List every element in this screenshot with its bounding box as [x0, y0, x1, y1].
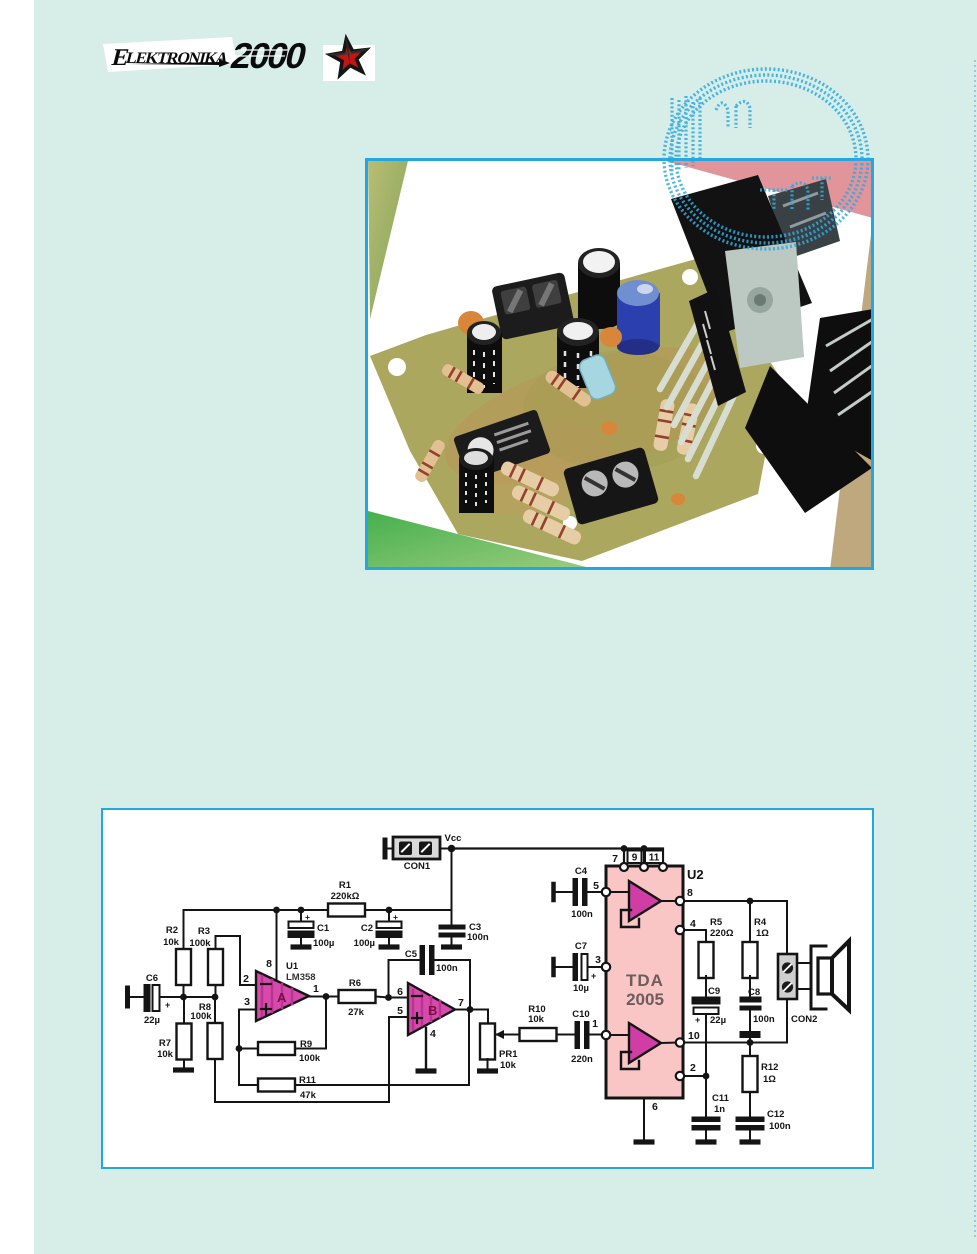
resistor R2 10k	[183, 910, 185, 997]
wire U1A pin3	[239, 1009, 256, 1011]
capacitor C8 100n	[740, 997, 762, 1003]
svg-text:2: 2	[690, 1062, 696, 1074]
svg-text:100n: 100n	[467, 932, 489, 943]
wire pin8 output rail	[684, 901, 787, 954]
svg-text:220Ω: 220Ω	[710, 928, 734, 939]
wire C6 to input node	[160, 996, 216, 998]
wire U1B pin6 node	[389, 997, 409, 999]
svg-text:U1: U1	[286, 961, 299, 972]
svg-text:10k: 10k	[528, 1014, 545, 1025]
potentiometer PR1 10k	[480, 1024, 495, 1060]
resistor R8 100k	[214, 997, 216, 1023]
pin circles top	[620, 863, 628, 871]
svg-text:R9: R9	[300, 1039, 312, 1050]
svg-text:100k: 100k	[190, 1011, 212, 1022]
input terminal	[125, 988, 130, 1006]
resistor R12 1ohm	[749, 1043, 751, 1057]
svg-text:100n: 100n	[436, 963, 458, 974]
op-amp U1A	[256, 971, 309, 1021]
svg-text:Vcc: Vcc	[445, 833, 462, 844]
supply bias rail	[184, 909, 452, 911]
svg-text:R11: R11	[299, 1075, 317, 1086]
capacitor C11 1n	[705, 1076, 707, 1117]
IC U2 TDA2005 body	[606, 866, 683, 1098]
node input bias junctions	[180, 994, 187, 1001]
speaker	[797, 962, 811, 964]
U2 upper amp	[610, 891, 629, 893]
svg-text:10µ: 10µ	[573, 983, 589, 994]
svg-text:8: 8	[266, 958, 272, 970]
wire Vcc down to C3	[451, 849, 453, 926]
svg-text:PR1: PR1	[499, 1049, 518, 1060]
resistor R3 100k	[215, 985, 217, 997]
U1B pin4 ground	[425, 1028, 427, 1068]
svg-text:+: +	[591, 971, 596, 981]
svg-text:C1: C1	[317, 923, 330, 934]
svg-text:10: 10	[688, 1030, 700, 1042]
svg-text:220kΩ: 220kΩ	[331, 891, 360, 902]
svg-text:4: 4	[690, 918, 696, 930]
svg-text:100n: 100n	[769, 1121, 791, 1132]
svg-text:U2: U2	[687, 867, 704, 882]
svg-text:22µ: 22µ	[144, 1015, 160, 1026]
svg-text:2005: 2005	[626, 990, 664, 1009]
pin 3	[602, 963, 610, 971]
capacitor C4 100n	[551, 884, 556, 900]
svg-text:LM358: LM358	[286, 972, 316, 983]
ground below R7	[173, 1067, 194, 1072]
pin 5	[602, 888, 610, 896]
wire R11 up to U1B output node	[468, 1010, 470, 1086]
resistor R10 10k	[497, 1034, 520, 1036]
svg-text:R6: R6	[349, 978, 361, 989]
svg-text:C10: C10	[572, 1009, 589, 1020]
svg-text:5: 5	[397, 1005, 403, 1017]
svg-text:1Ω: 1Ω	[756, 928, 769, 939]
capacitor C2 100u	[388, 910, 390, 922]
svg-text:C8: C8	[748, 987, 760, 998]
svg-text:100k: 100k	[299, 1053, 321, 1064]
svg-text:CON2: CON2	[791, 1014, 817, 1025]
svg-text:C9: C9	[708, 986, 720, 997]
connector CON2	[778, 954, 797, 999]
blue halftone stamp watermark	[652, 58, 884, 264]
capacitor C7 10u	[551, 959, 556, 975]
svg-text:C11: C11	[712, 1093, 730, 1104]
svg-text:TDA: TDA	[626, 971, 664, 990]
capacitor C6 22u	[144, 984, 151, 1012]
svg-text:R2: R2	[166, 925, 178, 936]
op-amp U1B	[408, 983, 455, 1035]
svg-text:9: 9	[632, 853, 638, 864]
svg-text:+: +	[165, 1000, 170, 1010]
svg-text:11: 11	[649, 853, 660, 864]
svg-text:3: 3	[595, 954, 601, 966]
wire C9 to pin2 node	[705, 1014, 707, 1076]
svg-text:C4: C4	[575, 866, 588, 877]
svg-text:10k: 10k	[500, 1060, 517, 1071]
svg-text:27k: 27k	[348, 1007, 365, 1018]
resistor R1 220k	[328, 904, 365, 917]
svg-text:47k: 47k	[300, 1090, 317, 1101]
wire U1A pin8 supply	[276, 910, 278, 981]
svg-text:7: 7	[612, 853, 618, 865]
wire U1B output	[455, 1009, 488, 1011]
wire U1A output	[309, 996, 339, 998]
resistor R6 27k	[339, 990, 376, 1003]
svg-text:R3: R3	[198, 926, 210, 937]
photo of amplifier PCB	[365, 158, 874, 570]
scan artifact dotted right edge	[970, 0, 977, 1254]
svg-text:R4: R4	[754, 917, 767, 928]
svg-text:100µ: 100µ	[354, 938, 375, 949]
svg-text:1: 1	[592, 1018, 598, 1030]
svg-text:100k: 100k	[189, 938, 211, 949]
svg-text:4: 4	[430, 1028, 436, 1040]
wire R3 top to U1A pin2	[216, 936, 257, 985]
svg-text:10k: 10k	[157, 1049, 174, 1060]
wire Vcc rail to U2 top pins	[452, 849, 664, 864]
svg-text:100µ: 100µ	[313, 938, 334, 949]
capacitor C10 220n	[557, 1034, 576, 1036]
svg-text:10k: 10k	[163, 937, 180, 948]
svg-text:C6: C6	[146, 973, 158, 984]
wire R8 bottom rail to U1B pin5	[215, 1017, 408, 1102]
svg-text:220n: 220n	[571, 1054, 593, 1065]
capacitor C12 100n	[736, 1117, 765, 1123]
pin 1	[602, 1031, 610, 1039]
pin 10 wire	[676, 1038, 684, 1046]
capacitor C5 100n feedback	[389, 960, 421, 998]
node Vcc	[448, 845, 456, 853]
svg-text:1n: 1n	[714, 1104, 725, 1115]
svg-text:7: 7	[458, 997, 464, 1009]
svg-text:1Ω: 1Ω	[763, 1074, 776, 1085]
svg-text:C2: C2	[361, 923, 373, 934]
svg-text:B: B	[428, 1003, 437, 1018]
svg-text:C7: C7	[575, 941, 587, 952]
pin 2 wire	[676, 1072, 684, 1080]
svg-text:C12: C12	[767, 1109, 784, 1120]
svg-text:100n: 100n	[571, 909, 593, 920]
svg-text:6: 6	[397, 986, 403, 998]
schematic diagram box	[101, 808, 874, 1169]
svg-text:100n: 100n	[753, 1014, 775, 1025]
svg-text:C5: C5	[405, 949, 418, 960]
svg-text:R5: R5	[710, 917, 723, 928]
svg-text:22µ: 22µ	[710, 1015, 726, 1026]
svg-text:CON1: CON1	[404, 861, 431, 872]
svg-text:6: 6	[652, 1101, 658, 1113]
pin 4 wire	[676, 926, 684, 934]
red star emblem	[320, 30, 380, 86]
resistor R4 1ohm	[749, 901, 751, 944]
svg-text:2: 2	[243, 973, 249, 985]
svg-text:A: A	[277, 990, 287, 1005]
svg-text:R7: R7	[159, 1038, 171, 1049]
svg-text:R1: R1	[339, 880, 352, 891]
pin 9 label	[628, 851, 642, 864]
svg-text:+: +	[695, 1015, 700, 1025]
capacitor C9 22u	[692, 997, 721, 1005]
svg-text:8: 8	[687, 887, 693, 899]
resistor R5 220ohm	[699, 942, 714, 978]
pin 6 ground	[643, 1098, 645, 1140]
capacitor C1 100u	[300, 910, 302, 922]
resistor R9 100k	[239, 1048, 326, 1050]
svg-text:R12: R12	[761, 1062, 778, 1073]
svg-text:3: 3	[244, 996, 250, 1008]
connector CON1 supply	[383, 840, 388, 857]
svg-text:5: 5	[593, 880, 599, 892]
svg-text:1: 1	[313, 983, 319, 995]
resistor R11 47k	[239, 1084, 469, 1086]
U2 lower amp	[610, 1034, 629, 1036]
wire input to C6	[129, 996, 144, 998]
logo ELEKTRONIKA 2000	[96, 28, 316, 80]
pin 11 label	[645, 851, 663, 864]
resistor R7 10k	[183, 997, 185, 1067]
capacitor C3 100n	[439, 925, 466, 930]
